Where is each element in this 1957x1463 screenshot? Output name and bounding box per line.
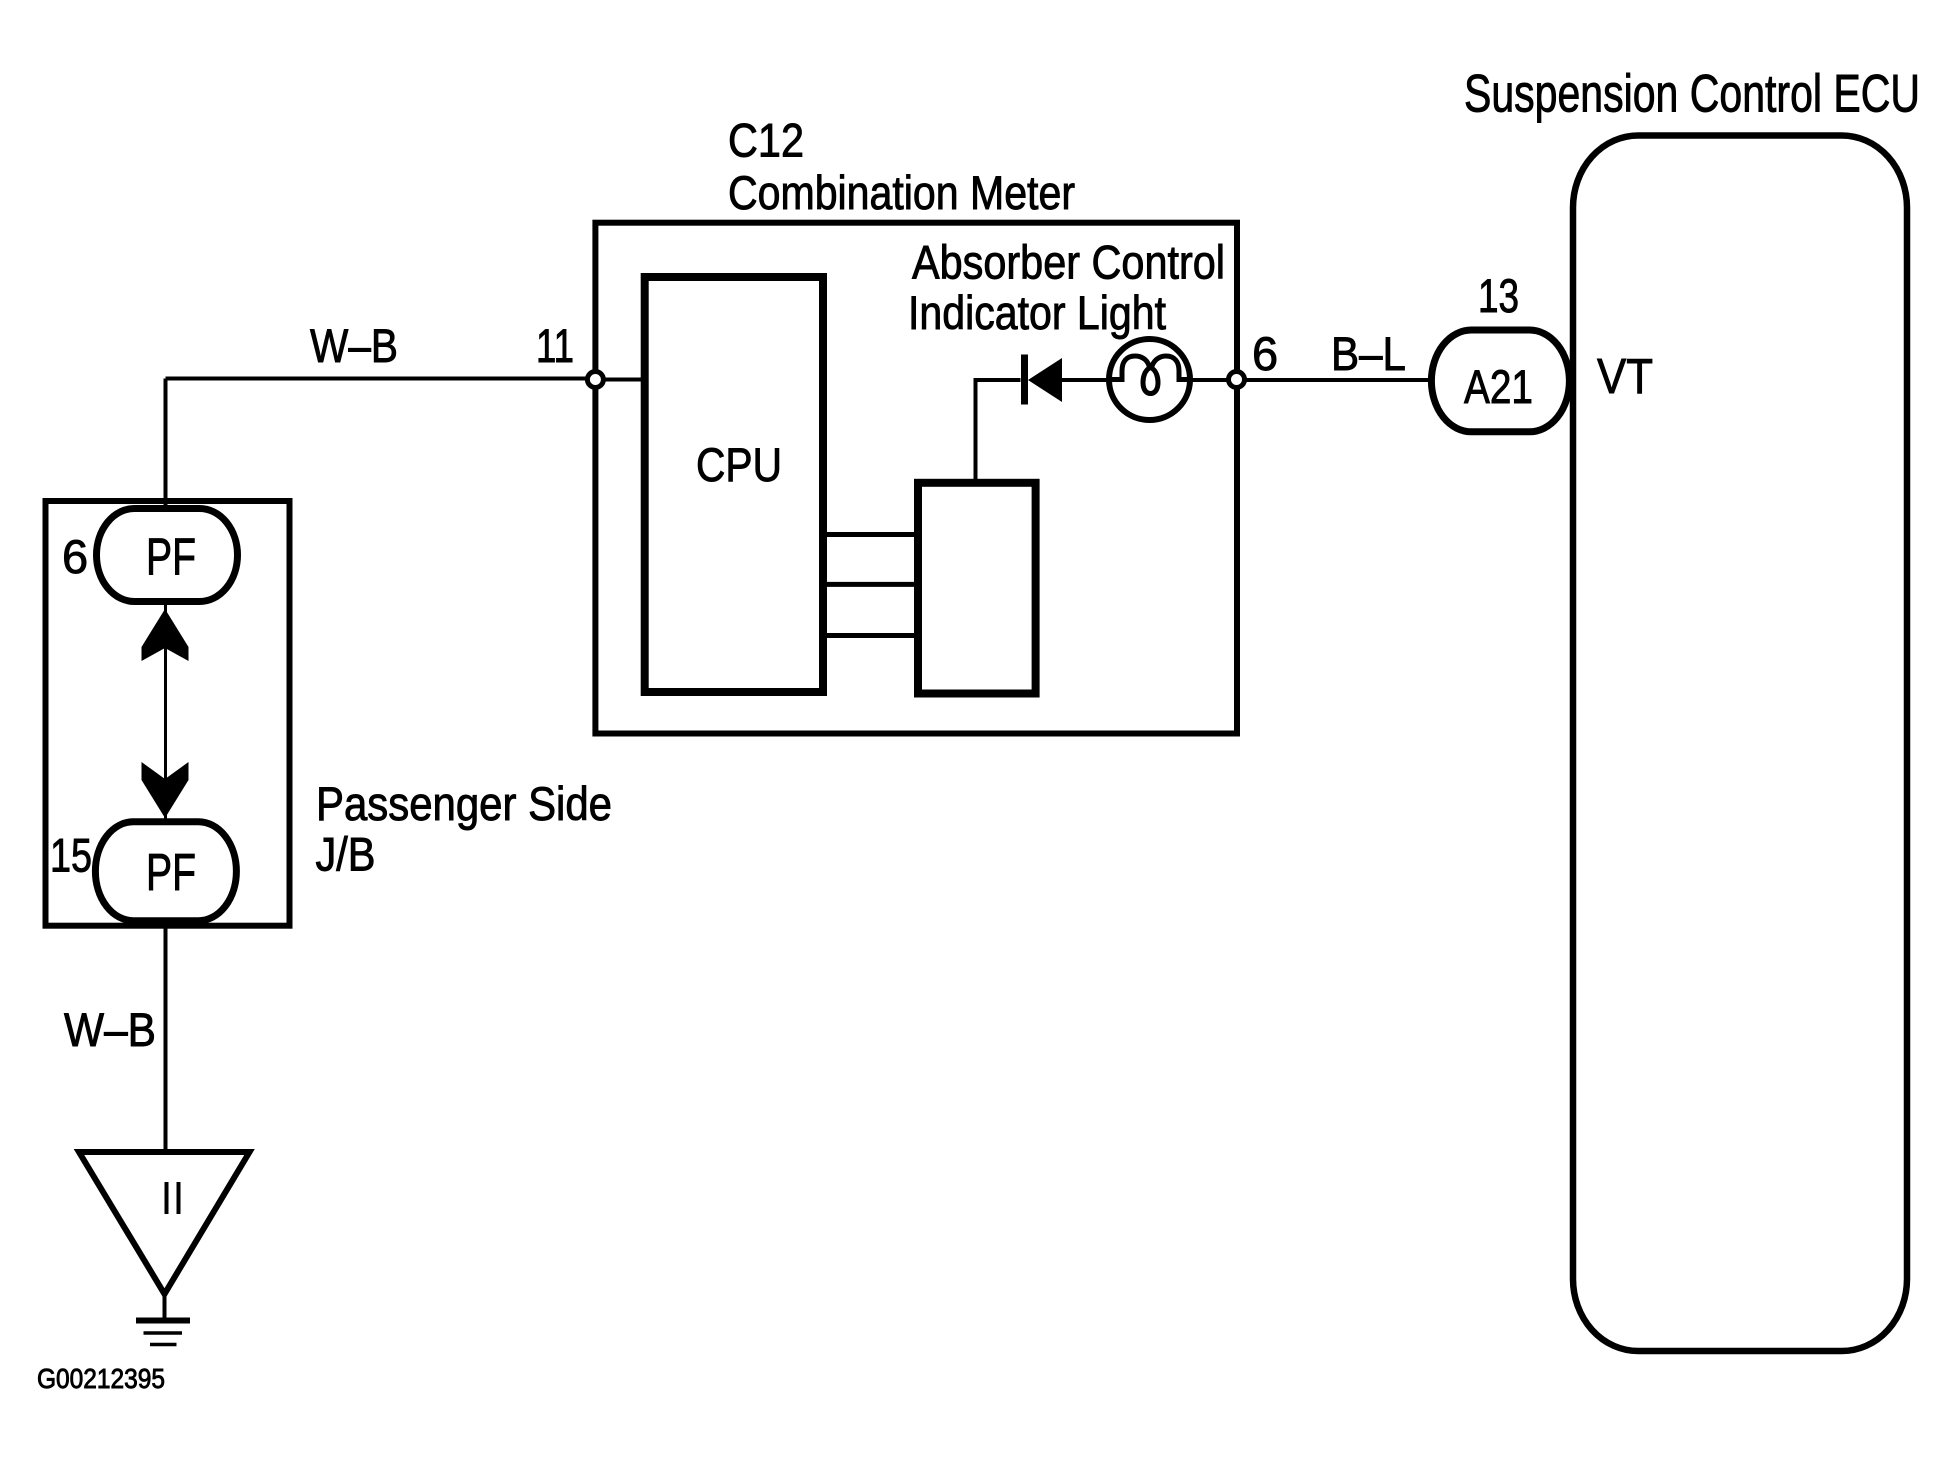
wire lamp to node 6 [1190,378,1237,382]
label II [167,1182,179,1214]
svg-text:15: 15 [50,829,92,882]
connector PF upper [97,509,238,602]
arrow down [142,762,189,818]
svg-text:W–B: W–B [310,319,398,372]
svg-text:Suspension Control ECU: Suspension Control ECU [1464,65,1920,124]
ground triangle II [79,1152,250,1294]
svg-text:6: 6 [1252,327,1278,380]
svg-text:PF: PF [146,844,196,902]
lamp filament [1111,356,1188,394]
node pin 11 junction [587,372,603,388]
wire W-B vertical to J/B [164,379,168,506]
ground symbol [136,1321,190,1345]
bus line 1 CPU to driver [823,532,918,537]
wire W-B horizontal [166,377,596,381]
lamp driver block [918,483,1036,694]
svg-text:W–B: W–B [64,1003,156,1056]
connector PF lower [95,822,236,921]
CPU block U1 [645,277,823,692]
svg-text:11: 11 [536,319,574,372]
combination meter box C12 [595,223,1237,734]
svg-text:J/B: J/B [316,828,376,881]
wire diode to lamp [1062,378,1110,382]
ground stem [163,1292,167,1318]
node pin 6 junction [1229,372,1245,388]
svg-text:Indicator Light: Indicator Light [908,286,1166,339]
wire node 11 to CPU [595,378,643,382]
svg-text:Absorber Control: Absorber Control [912,236,1225,289]
svg-text:Combination Meter: Combination Meter [728,166,1075,219]
wire corner to diode horizontal [974,378,1021,382]
wire J/B to ground [164,925,168,1152]
svg-text:VT: VT [1597,350,1653,404]
arrow up [142,609,189,661]
svg-text:Passenger Side: Passenger Side [316,777,612,830]
svg-text:C12: C12 [728,114,804,167]
svg-text:CPU: CPU [696,438,782,491]
bus line 3 CPU to driver [823,633,918,638]
wire driver to diode vertical [974,380,978,482]
indicator lamp L1 [1109,339,1190,420]
svg-text:6: 6 [62,530,88,583]
wire node 6 to connector A21 [1237,378,1432,382]
bus line 2 CPU to driver [823,582,918,587]
passenger side J/B box [46,501,290,926]
svg-text:PF: PF [146,529,196,587]
svg-text:G00212395: G00212395 [37,1363,165,1394]
svg-text:A21: A21 [1464,360,1533,413]
diode D1 triangle [1028,358,1062,402]
wire between PF connectors [164,601,167,822]
diode D1 cathode bar [1021,355,1028,405]
svg-text:13: 13 [1478,269,1519,322]
ECU box [1573,136,1907,1352]
connector A21 [1431,330,1569,432]
svg-text:B–L: B–L [1331,327,1406,380]
